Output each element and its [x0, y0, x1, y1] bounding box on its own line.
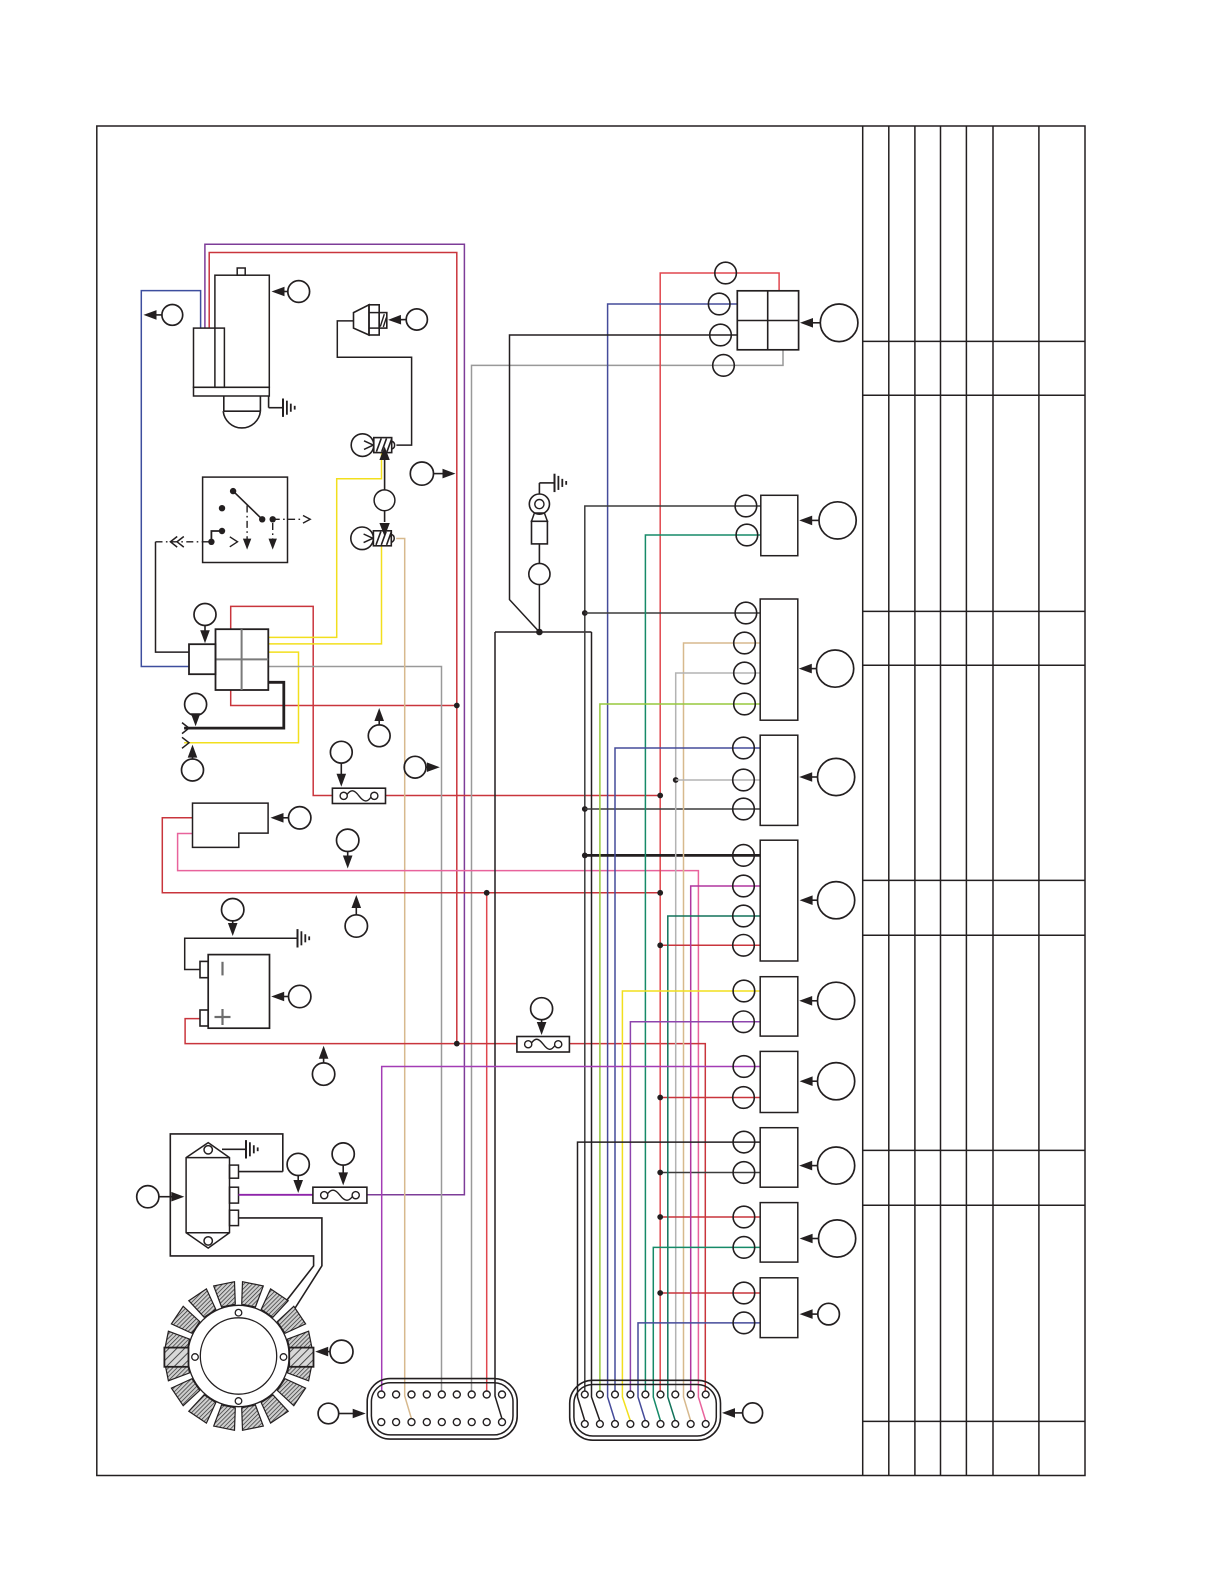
- callout blue wire: [162, 305, 183, 326]
- bullet C1 pin 3: [710, 324, 732, 346]
- bullet C5 pin 4: [733, 935, 755, 957]
- bullet C2 pin 1: [735, 495, 757, 517]
- junction dot: [657, 1095, 663, 1101]
- callout battery: [289, 985, 311, 1007]
- ground regulator: [222, 1148, 246, 1150]
- headlamp bulb L1: [351, 434, 394, 457]
- connector C9: [760, 1203, 798, 1263]
- bullet C7 pin 2: [733, 1087, 755, 1109]
- junction dot: [657, 1290, 663, 1296]
- junction dot black bus 2: [582, 806, 588, 812]
- bullet C1 pin 2: [708, 293, 730, 315]
- bullet C10 pin 2: [733, 1312, 755, 1334]
- callout key connector: [194, 604, 216, 626]
- connector C4: [760, 735, 798, 825]
- callout connector C8: [818, 1147, 855, 1184]
- bullet C1 pin 1: [715, 262, 737, 284]
- wire red fuse F1 to red bus: [386, 795, 661, 797]
- ground starter: [269, 407, 283, 409]
- junction dot: [657, 890, 663, 896]
- wire pink relay to main connector B: [178, 834, 706, 1421]
- wire purple solenoid to regulator fuse: [205, 244, 465, 1195]
- wire tan connector C3 to main connector B: [684, 643, 761, 1421]
- junction dot black bus 1: [582, 610, 588, 616]
- wire black branch to connector C4: [585, 808, 760, 810]
- battery BT1: [200, 955, 270, 1029]
- junction dot: [454, 703, 460, 709]
- fuse F1: [332, 788, 385, 803]
- harness connector A shell: [367, 1379, 517, 1440]
- wire teal connector C9 to main connector B: [653, 1247, 760, 1421]
- wire black connector C8 to main connector B: [578, 1142, 761, 1421]
- wire red branch connector C9: [660, 1216, 760, 1218]
- wire battery negative to ground: [185, 938, 297, 969]
- junction dot black bus 3: [582, 853, 588, 859]
- main connector B shell: [570, 1380, 721, 1440]
- wire purple connector C7 to harness connector A pin 1: [382, 1067, 761, 1392]
- callout regulator: [137, 1186, 159, 1208]
- wire regulator terminal 3 to stator: [239, 1218, 322, 1309]
- wire violet connector C6 to main connector B pin 4: [630, 1022, 760, 1391]
- connector C7: [760, 1051, 798, 1112]
- bullet C8 pin 1: [733, 1131, 755, 1153]
- callout main connector B: [743, 1403, 763, 1423]
- wire red relay to red bus: [162, 818, 660, 893]
- junction dot: [657, 942, 663, 948]
- connector C2: [761, 495, 798, 555]
- wire red key connector to fuse F1: [231, 606, 333, 795]
- wire yellow headlamp 1 to key connector: [268, 453, 381, 638]
- arrow down into bulb L2: [384, 511, 386, 522]
- legend table column lines: [863, 126, 1039, 1476]
- wire blue solenoid to key connector: [141, 291, 200, 667]
- bullet C4 pin 2: [733, 769, 755, 791]
- callout connector C2: [819, 502, 856, 539]
- callout pink wire: [337, 829, 359, 851]
- wire spark plug to headlamp 1: [337, 321, 411, 445]
- wire red solenoid loop: [209, 253, 457, 1044]
- callout connector C1: [820, 304, 858, 342]
- bullet C5 pin 2: [733, 875, 755, 897]
- bullet C4 pin 3: [733, 798, 755, 820]
- harness connector A pins: [378, 1391, 506, 1426]
- bullet C2 pin 2: [736, 524, 758, 546]
- starter ground wire: [268, 396, 270, 408]
- callout connector C3: [817, 650, 854, 687]
- junction dot: [657, 1214, 663, 1220]
- stator G1: [164, 1282, 313, 1431]
- main connector B pins: [581, 1391, 709, 1427]
- bullet C3 pin 4: [734, 693, 756, 715]
- connector C10: [760, 1278, 798, 1338]
- fuse F2: [517, 1037, 570, 1053]
- callout black key wire: [185, 693, 207, 715]
- connector C8: [760, 1128, 798, 1188]
- wire dark branch connector C8: [660, 1172, 760, 1174]
- junction dot ground bus: [536, 629, 543, 636]
- callout connector C5: [818, 882, 855, 919]
- callout connector C10: [818, 1303, 840, 1325]
- callout stator: [330, 1340, 353, 1363]
- wire yellow connector C6 to main connector B: [622, 991, 760, 1421]
- bullet C3 pin 1: [735, 602, 757, 624]
- connector C3: [760, 599, 798, 720]
- wire red branch connector C7: [660, 1097, 760, 1099]
- callout starter: [288, 281, 310, 303]
- wire red branch to harness connector A pin 8: [486, 893, 488, 1391]
- wire red branch connector C10: [660, 1292, 760, 1294]
- wire red key connector bottom: [231, 690, 457, 706]
- wire yellow headlamp 2 to key connector: [268, 546, 381, 644]
- wire black key connector stub: [184, 682, 284, 728]
- callout connector C9: [819, 1220, 856, 1257]
- bullet C6 pin 1: [733, 980, 755, 1002]
- fuse F3: [313, 1187, 367, 1203]
- wire black branch to connector C5: [585, 854, 760, 857]
- spark plug P1: [354, 305, 387, 335]
- wire red bus connector C1 to main connector B: [660, 273, 779, 1391]
- connector C6: [760, 977, 798, 1036]
- callout fuse F3: [332, 1143, 354, 1165]
- wire green connector C3 to main connector B pin 2: [600, 704, 760, 1391]
- connector C5: [760, 840, 798, 961]
- wire black connector C1 to ground bus: [510, 335, 738, 632]
- starter motor M1: [194, 268, 270, 428]
- bullet C3 pin 3: [734, 662, 756, 684]
- chevron black wire end: [182, 723, 189, 734]
- wire gray connector C3 to main connector B pin 7: [676, 673, 761, 1391]
- border frame: [97, 126, 1085, 1476]
- headlamp bulb L2: [351, 527, 394, 550]
- callout spark plug: [406, 309, 427, 330]
- ground bus bar: [495, 631, 592, 633]
- callout fuse F1: [330, 741, 352, 763]
- bullet C7 pin 1: [733, 1056, 755, 1078]
- chevron yellow wire end: [182, 737, 189, 748]
- callout red key wire: [368, 725, 390, 747]
- relay K1: [193, 803, 269, 847]
- wire magenta connector C5 to main connector B pin 8: [691, 886, 761, 1391]
- wire gray branch to connector C4: [676, 779, 761, 781]
- junction dot: [454, 1041, 460, 1047]
- bullet C5 pin 1: [733, 845, 755, 867]
- bullet C4 pin 1: [733, 737, 755, 759]
- wire purple regulator to fuse F3: [239, 1194, 313, 1196]
- key switch connector: [189, 629, 268, 690]
- bullet C1 pin 4: [713, 355, 735, 377]
- connector C1: [737, 291, 798, 350]
- callout red bus wire: [345, 915, 367, 937]
- wire tan headlamp 2 to harness connector A pin 3: [396, 539, 411, 1419]
- wire teal connector C2 to main connector B pin 5: [645, 535, 760, 1391]
- callout connector C7: [818, 1063, 855, 1100]
- callout right of bulbs: [410, 462, 433, 485]
- junction dot: [657, 1170, 663, 1176]
- wire yellow key connector stub: [184, 652, 298, 743]
- wire black ignition switch to key connector: [156, 542, 190, 652]
- wire gray connector C1 to harness connector A pin 7: [472, 350, 784, 1391]
- wire black connector C2 to main connector B pin 1: [585, 506, 761, 1391]
- callout relay: [289, 807, 311, 829]
- junction dot: [657, 793, 663, 799]
- wire blue connector C10 to main connector B: [638, 1323, 760, 1421]
- bullet connector ring chain: [529, 563, 550, 584]
- wire regulator terminal 1 loop to stator: [239, 1171, 283, 1173]
- bullet C9 pin 1: [733, 1206, 755, 1228]
- callout between bulbs: [374, 490, 395, 511]
- wire red branch connector C5: [660, 944, 760, 946]
- voltage regulator VR1: [186, 1143, 238, 1249]
- ground ring terminal: [539, 482, 554, 484]
- bullet C10 pin 1: [733, 1282, 755, 1304]
- wire teal connector C5 to main connector B: [668, 916, 760, 1421]
- ground battery: [296, 937, 299, 939]
- junction dot: [484, 890, 490, 896]
- wire ring terminal to bullet: [538, 544, 540, 564]
- callout gray wire: [404, 756, 426, 778]
- wire black branch to connector C3: [585, 612, 760, 614]
- ring terminal: [529, 483, 549, 544]
- ignition switch S1: [156, 477, 311, 562]
- wire black ground bus to main connector B pin 2: [592, 632, 600, 1421]
- wire black ground bus to harness connector A pin 9: [495, 632, 502, 1419]
- arrow up into bulb L1: [384, 453, 386, 490]
- bullet C8 pin 2: [733, 1162, 755, 1184]
- bullet C6 pin 2: [733, 1011, 755, 1033]
- wire ring terminal to ground bus: [538, 585, 540, 632]
- bullet C3 pin 2: [734, 632, 756, 654]
- callout purple wire: [287, 1153, 309, 1175]
- bullet C9 pin 2: [733, 1237, 755, 1259]
- callout harness connector A: [318, 1403, 339, 1424]
- wire blue connector C4 to main connector B pin 3: [615, 748, 760, 1391]
- bullet C5 pin 3: [733, 905, 755, 927]
- callout battery ground: [222, 899, 244, 921]
- wire red battery positive to fuse F2: [185, 1019, 517, 1044]
- wire red fuse F2 to main connector B pin: [569, 1044, 705, 1392]
- wire blue connector C1 to main connector B: [608, 304, 738, 1421]
- callout fuse F2: [531, 998, 553, 1020]
- callout connector C4: [818, 758, 855, 795]
- junction dot gray bus: [673, 777, 679, 783]
- callout connector C6: [818, 982, 855, 1019]
- legend table row lines: [863, 341, 1085, 1421]
- callout battery red wire: [312, 1063, 334, 1085]
- wire gray key connector to harness connector A pin 5: [268, 667, 441, 1392]
- callout yellow key wire: [182, 759, 204, 781]
